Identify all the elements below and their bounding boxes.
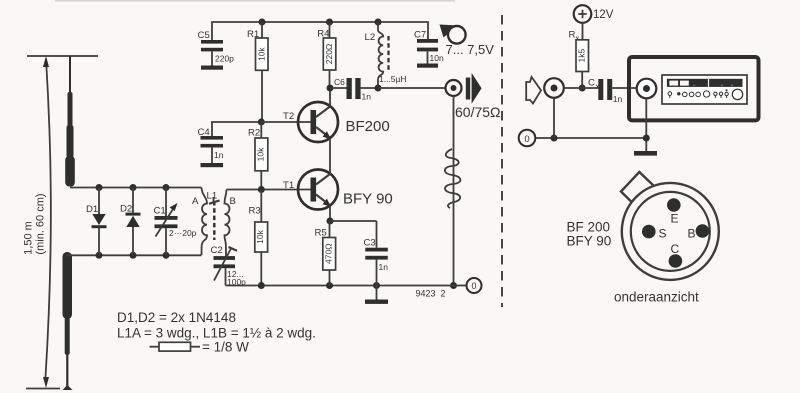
svg-text:10n: 10n xyxy=(430,53,444,63)
radio front panel xyxy=(662,75,747,104)
resistor R3 xyxy=(260,190,262,223)
svg-text:R3: R3 xyxy=(249,206,261,217)
scan streak top xyxy=(55,0,455,2)
can inner circle xyxy=(631,192,710,271)
probe icon 7..7,5V xyxy=(440,25,459,38)
inductor L2 xyxy=(378,22,383,88)
svg-text:B: B xyxy=(688,227,696,241)
svg-text:0: 0 xyxy=(524,134,529,145)
wire T1 emitter to node xyxy=(329,207,331,221)
antenna lower telescopic element xyxy=(63,252,73,319)
supply +12V xyxy=(574,5,592,23)
ground rail bottom xyxy=(226,285,454,287)
svg-text:C: C xyxy=(588,78,595,89)
svg-text:2···20p: 2···20p xyxy=(169,228,197,238)
node Rx / input line xyxy=(579,85,586,92)
capacitor C4 xyxy=(212,122,261,136)
junction R3 bottom xyxy=(258,282,265,289)
resistor R5 xyxy=(329,221,331,238)
svg-text:1,50 m: 1,50 m xyxy=(23,221,35,255)
svg-text:BFY 90: BFY 90 xyxy=(567,234,612,249)
svg-text:R: R xyxy=(569,30,576,41)
node R2/R3/T1-base xyxy=(258,186,265,193)
svg-text:1n: 1n xyxy=(214,150,224,160)
output arrow xyxy=(466,78,470,100)
svg-text:A: A xyxy=(192,196,199,207)
coax pigtail squiggle xyxy=(445,149,461,208)
pin E xyxy=(667,198,681,212)
wire 12V to Rx xyxy=(582,23,584,40)
svg-text:C7: C7 xyxy=(414,30,426,41)
svg-text:12V: 12V xyxy=(593,9,614,21)
junction D2 bottom xyxy=(130,252,137,259)
wire to terminal 0 xyxy=(454,285,467,287)
junction R5 bottom xyxy=(326,282,333,289)
dimension tick bottom xyxy=(26,388,60,390)
top supply rail xyxy=(212,22,428,40)
resistor R2 xyxy=(260,122,262,138)
node on rail above L2 xyxy=(375,19,382,26)
svg-text:10k: 10k xyxy=(257,47,267,61)
ground bar right xyxy=(634,151,657,156)
transformer L1 winding A xyxy=(202,188,208,256)
junction D2 top xyxy=(130,184,137,191)
radio antenna terminal xyxy=(637,79,657,99)
svg-text:C: C xyxy=(671,242,680,256)
node L2/C6/output xyxy=(375,85,382,92)
svg-text:C1: C1 xyxy=(154,206,166,217)
ground symbol xyxy=(376,286,378,300)
pin C xyxy=(669,254,683,268)
node T1 emitter / R5 / C3 xyxy=(327,218,334,225)
junction C3 bottom xyxy=(373,282,380,289)
svg-text:1...5µH: 1...5µH xyxy=(379,74,407,84)
wire antenna bottom to L1A xyxy=(66,254,202,256)
diode D2 xyxy=(132,188,134,213)
ground bar below C7 xyxy=(417,64,438,68)
svg-text:D1,D2 = 2x 1N4148: D1,D2 = 2x 1N4148 xyxy=(117,310,236,325)
node R1/R2/C4/T2-base xyxy=(258,119,265,126)
svg-text:10k: 10k xyxy=(255,229,265,243)
wire L1B to T1 base xyxy=(227,189,311,191)
wire node to output terminal xyxy=(378,87,446,89)
junction C1 top xyxy=(163,184,170,191)
svg-text:L1: L1 xyxy=(207,191,218,202)
wire input terminal to Cx xyxy=(564,87,599,89)
wire node to T2 base xyxy=(261,121,310,123)
input terminal xyxy=(544,78,564,98)
svg-text:R2: R2 xyxy=(248,128,260,139)
node bottom of output wire xyxy=(450,282,457,289)
resistor Rx xyxy=(576,40,589,72)
ground bar below C5 xyxy=(201,66,223,70)
svg-text:R4: R4 xyxy=(317,29,330,40)
svg-text:R5: R5 xyxy=(315,228,327,239)
L1 core xyxy=(213,201,215,240)
svg-text:BF200: BF200 xyxy=(346,118,390,135)
svg-text:C4: C4 xyxy=(198,127,211,138)
transistor T1 xyxy=(298,170,338,210)
node R4/C6/T2-collector xyxy=(327,85,334,92)
wire T2 collector to node xyxy=(329,88,331,107)
dimension tick top xyxy=(27,55,98,57)
ground rail right xyxy=(535,137,646,139)
svg-text:0: 0 xyxy=(471,281,476,291)
wire Cx to radio terminal xyxy=(612,87,637,89)
transformer L1 winding B xyxy=(225,190,230,257)
diode D1 xyxy=(98,188,100,215)
svg-text:220Ω: 220Ω xyxy=(324,44,334,65)
capacitor C6 xyxy=(330,87,347,89)
svg-text:T2: T2 xyxy=(283,111,294,122)
node on rail above R1 xyxy=(259,19,266,26)
capacitor C5 xyxy=(201,40,223,44)
junction D1 top xyxy=(96,184,103,191)
wire radio terminal to ground xyxy=(645,98,647,151)
pin S xyxy=(642,225,656,239)
svg-text:C5: C5 xyxy=(198,30,210,41)
svg-text:B: B xyxy=(230,196,236,207)
resistor R1 xyxy=(261,22,263,38)
svg-text:D2: D2 xyxy=(120,204,132,215)
terminal 0 xyxy=(467,278,482,293)
antenna upper telescopic element xyxy=(69,56,71,93)
ground bar below C4 xyxy=(201,163,224,167)
junction C1 bottom xyxy=(163,252,170,259)
L1 core adjuster T xyxy=(213,197,215,203)
svg-text:C2: C2 xyxy=(211,245,223,256)
svg-text:L2: L2 xyxy=(365,32,376,43)
svg-text:10k: 10k xyxy=(256,147,266,161)
capacitor Cx xyxy=(598,79,603,100)
svg-text:D1: D1 xyxy=(86,204,98,215)
svg-text:1n: 1n xyxy=(379,262,389,272)
radio knobs and lamps xyxy=(668,92,672,96)
radio box xyxy=(629,57,759,120)
junction D1 bottom xyxy=(96,252,103,259)
wire input terminal to ground rail xyxy=(553,98,555,138)
dimension line xyxy=(46,59,51,377)
svg-text:T1: T1 xyxy=(283,180,294,191)
dashed separator xyxy=(501,15,503,307)
svg-text:470Ω: 470Ω xyxy=(323,243,333,264)
wire output down to ground rail xyxy=(453,96,455,286)
svg-text:BFY 90: BFY 90 xyxy=(343,191,393,208)
svg-text:L1A = 3 wdg., L1B = 1½ à 2 wdg: L1A = 3 wdg., L1B = 1½ à 2 wdg. xyxy=(117,326,316,341)
svg-text:E: E xyxy=(671,212,679,226)
trimmer capacitor C2 xyxy=(214,256,236,260)
capacitor C3 xyxy=(376,221,378,248)
node on rail above R4 xyxy=(326,19,333,26)
can tab xyxy=(621,172,654,202)
svg-text:C3: C3 xyxy=(364,238,376,249)
svg-text:(min. 60 cm): (min. 60 cm) xyxy=(35,193,47,254)
terminal 0 right xyxy=(519,130,536,147)
svg-text:60/75Ω: 60/75Ω xyxy=(455,104,501,120)
svg-text:9423 2: 9423 2 xyxy=(416,289,446,299)
input open arrow xyxy=(526,77,541,104)
junction input terminal ground xyxy=(551,135,558,142)
svg-text:S: S xyxy=(659,227,667,241)
svg-text:1n: 1n xyxy=(362,92,372,102)
svg-text:7... 7,5V: 7... 7,5V xyxy=(446,42,495,57)
junction radio ground xyxy=(643,135,650,142)
svg-text:= 1/8 W: = 1/8 W xyxy=(202,340,249,355)
transistor T2 xyxy=(298,102,338,142)
capacitor C7 xyxy=(417,39,438,43)
svg-text:220p: 220p xyxy=(215,54,234,64)
wire antenna top to L1A xyxy=(70,187,202,189)
trimmer capacitor C1 xyxy=(165,188,167,217)
note resistor symbol xyxy=(150,346,160,348)
resistor R4 xyxy=(329,22,331,38)
svg-text:C6: C6 xyxy=(334,77,345,87)
can outer circle xyxy=(622,183,719,280)
svg-text:BF 200: BF 200 xyxy=(567,220,611,235)
svg-text:1k5: 1k5 xyxy=(576,48,586,62)
svg-text:1n: 1n xyxy=(613,94,623,104)
svg-text:onderaanzicht: onderaanzicht xyxy=(614,290,699,305)
wire T2 emitter to T1 collector xyxy=(329,140,331,175)
radio display xyxy=(667,79,743,87)
output terminal xyxy=(446,80,462,96)
svg-text:R1: R1 xyxy=(247,29,259,40)
pin B xyxy=(696,224,710,238)
